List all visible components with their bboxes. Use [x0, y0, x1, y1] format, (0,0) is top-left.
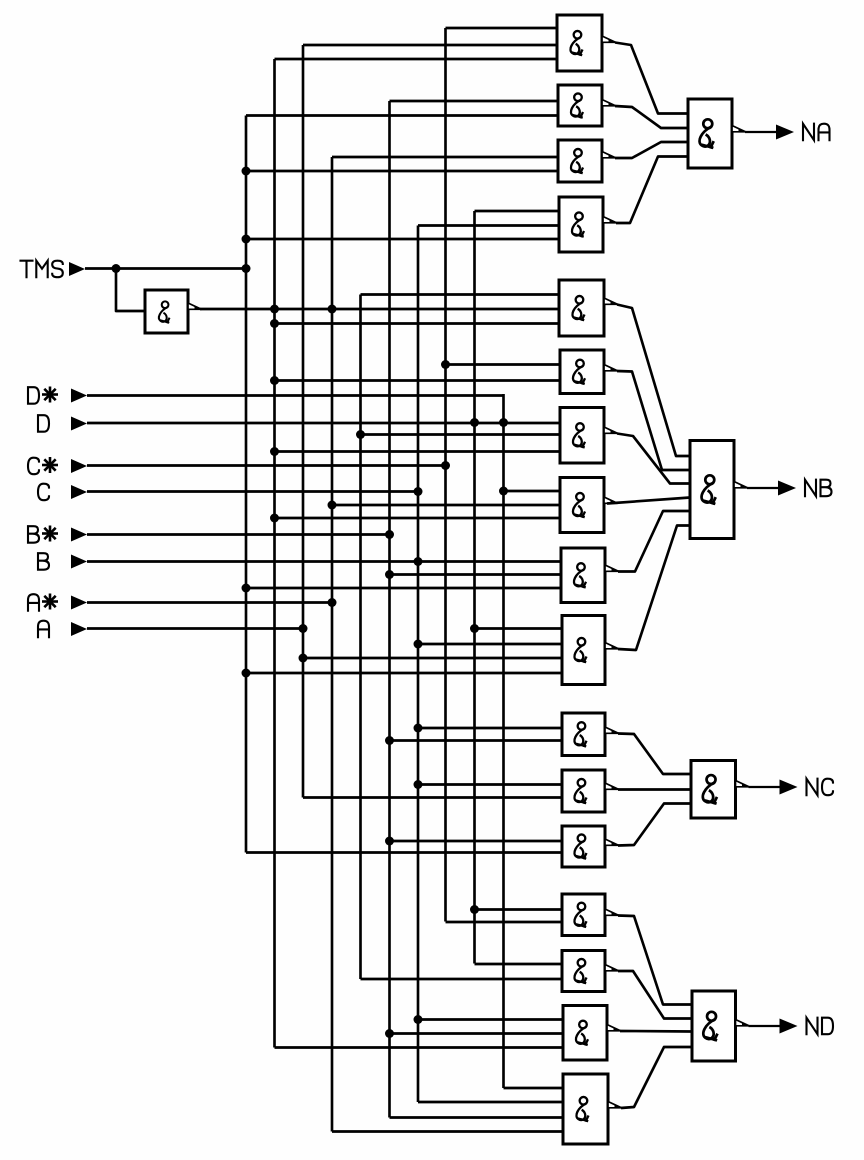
and-gate G17 symbol — [576, 1097, 588, 1122]
wire G6 input-1 row — [446, 363, 561, 366]
wire G13 output to NC — [618, 804, 691, 846]
wire G17 output to ND — [621, 1047, 692, 1108]
wire G10 input-3 row — [303, 657, 562, 660]
wire G11 input-2 row — [390, 739, 563, 742]
wire ND output — [749, 1025, 781, 1027]
input B arrow — [71, 555, 87, 569]
node G6 input-2 tap — [270, 376, 279, 385]
wire G16 input-2 row — [390, 1032, 563, 1035]
wire vertical bus A-star x=332 — [331, 157, 334, 1132]
wire NB output — [747, 487, 779, 489]
wire G7 output to NB — [617, 434, 690, 484]
wire G15 input-2 row — [361, 978, 563, 981]
input C* label — [28, 458, 39, 475]
wire G4 input-2 row — [418, 224, 558, 227]
wire TMS row — [85, 267, 246, 270]
and-gate G14 box — [562, 894, 605, 936]
and-gate G9 output arrow — [605, 565, 619, 571]
wire G4 input-3 row — [246, 238, 558, 241]
and-gate G4 box — [559, 197, 603, 252]
input B label — [38, 553, 49, 570]
output NB label — [805, 480, 816, 497]
and-gate G11 symbol — [574, 722, 586, 747]
and-gate G3 box — [558, 140, 602, 182]
and-gate G3 symbol — [571, 149, 583, 174]
wire G2 output to NA — [615, 106, 688, 128]
wire G11 output to NC — [618, 734, 691, 775]
and-gate G7 box — [560, 408, 604, 464]
wire G8 input-3 row — [275, 517, 561, 520]
and-gate G5 box — [559, 280, 604, 336]
output NA arrowhead — [776, 125, 794, 140]
and-gate G16 symbol — [576, 1021, 588, 1046]
wire vertical bus TMS-bar x=274 — [273, 59, 276, 1048]
wire B* row — [87, 533, 390, 536]
and-gate G16 output arrow — [607, 1025, 621, 1031]
and-gate G9 symbol — [574, 563, 586, 588]
and-gate G6 symbol — [573, 360, 585, 385]
node G7 input-2 tap — [356, 430, 365, 439]
wire G8 input-1 row — [504, 490, 561, 493]
wire G4 input-1 row — [475, 210, 559, 213]
and-gate G11 box — [562, 713, 605, 756]
node G14 input-1 tap D — [470, 905, 479, 914]
wire G13 input-1 row — [390, 840, 563, 843]
wire G10 input-2 row — [418, 643, 562, 646]
wire G11 input-1 row — [418, 727, 562, 730]
and-gate G12 symbol — [574, 779, 586, 804]
node TMS junction at bus — [242, 264, 251, 273]
node G11 input-2 tap B* — [385, 736, 394, 745]
wire G17 input-4 row — [332, 1130, 562, 1133]
node C row junction — [414, 487, 423, 496]
node TMS junction at x=116 — [112, 264, 121, 273]
wire G8 input-2 row — [332, 504, 560, 507]
nand-gate NC symbol — [703, 775, 717, 804]
wire G16 output to ND — [620, 1030, 692, 1033]
input D* label — [28, 387, 39, 404]
and-gate G10 box — [562, 616, 605, 685]
and-gate G6 output arrow — [604, 365, 618, 371]
node G11 input-1 tap B — [414, 724, 423, 733]
and-gate G17 box — [563, 1074, 608, 1144]
input B* label — [28, 526, 39, 543]
node G10 input-3 tap A — [299, 654, 308, 663]
and-gate G1 symbol — [570, 31, 582, 56]
output NB arrowhead — [778, 481, 796, 496]
wire TMS-bar row (inverter output to G5 input-2) — [200, 308, 560, 311]
node G3 input-2 tap TMS — [242, 167, 251, 176]
output NA label — [803, 124, 814, 141]
wire G1 output to NA — [615, 43, 688, 114]
and-gate G2 output arrow — [602, 100, 616, 106]
wire NC output — [749, 786, 781, 788]
input A* arrow — [71, 596, 87, 610]
and-gate G12 box — [562, 770, 605, 812]
inverter gate U1 output arrow — [188, 303, 202, 309]
wire NA output — [745, 131, 777, 133]
and-gate G14 symbol — [574, 903, 586, 928]
and-gate G7 output arrow — [604, 427, 618, 433]
and-gate G6 box — [560, 350, 604, 394]
wire G6 output to NB — [617, 371, 690, 470]
wire G3 input-1 row — [332, 156, 558, 159]
input D arrow — [71, 417, 87, 431]
wire G10 input-1 row — [475, 627, 563, 630]
wire G12 input-2 row — [303, 796, 562, 799]
wire G17 input-1 row — [504, 1087, 563, 1090]
node TMS-bar junction at x=274 — [270, 305, 279, 314]
inverter gate U1 symbol — [159, 301, 170, 323]
wire G5 input-1 row — [361, 293, 561, 296]
nand-gate NA symbol — [700, 119, 714, 148]
wire G16 input-3 row — [275, 1046, 563, 1049]
node G8 input-1 tap D* — [499, 487, 508, 496]
input C label — [38, 484, 49, 501]
nand-gate NB box — [690, 441, 734, 539]
and-gate G7 symbol — [573, 423, 585, 448]
node C* row junction — [441, 461, 450, 470]
and-gate G2 box — [558, 85, 602, 126]
wire vertical bus D-star x=503 — [502, 394, 505, 1088]
and-gate G1 box — [557, 15, 602, 71]
input TMS label — [21, 261, 33, 278]
wire vertical bus B x=418 — [417, 226, 420, 1103]
and-gate G13 box — [562, 826, 605, 867]
wire vertical bus C-star x=445 — [444, 28, 447, 922]
and-gate G17 output arrow — [608, 1102, 622, 1108]
wire G1 input-1 row — [446, 27, 559, 30]
wire G5 input-3 row — [275, 322, 561, 325]
and-gate G1 output arrow — [602, 36, 616, 42]
wire C row — [87, 490, 418, 493]
wire G5 output to NB — [617, 305, 690, 457]
nand-gate NB symbol — [702, 475, 716, 504]
output NC arrowhead — [780, 780, 798, 795]
node G16 input-2 tap B* — [385, 1029, 394, 1038]
wire G9 output to NB — [618, 511, 690, 572]
node B row junction — [414, 557, 423, 566]
node D row junction — [470, 418, 479, 427]
and-gate G13 output arrow — [605, 839, 619, 845]
and-gate G15 box — [562, 951, 605, 992]
node G16 input-1 tap B — [414, 1015, 423, 1024]
wire G10 output to NB — [618, 526, 690, 651]
node D row junction at D* bus — [499, 418, 508, 427]
and-gate G11 output arrow — [605, 727, 619, 733]
and-gate G9 box — [561, 548, 605, 603]
wire G17 input-2 row — [418, 1101, 562, 1104]
wire G2 input-1 row — [390, 100, 559, 103]
node G6 input-1 tap C* — [441, 360, 450, 369]
and-gate G14 output arrow — [605, 909, 619, 915]
and-gate G4 symbol — [572, 212, 584, 237]
node G7 input-3 tap TMS-bar — [270, 447, 279, 456]
input A arrow — [71, 622, 87, 636]
nand-gate ND symbol — [703, 1012, 717, 1041]
wire G12 input-1 row — [418, 783, 562, 786]
wire G16 input-1 row — [418, 1018, 562, 1021]
wire TMS branch to inverter — [116, 269, 145, 312]
wire B row — [87, 560, 560, 563]
wire G7 input-3 row — [275, 450, 561, 453]
and-gate G5 symbol — [572, 296, 584, 321]
node G10 input-2 tap B — [414, 640, 423, 649]
nand-gate NA output arrow — [732, 126, 746, 132]
output NC label — [807, 779, 818, 796]
and-gate G8 box — [560, 478, 604, 533]
node G9 input-3 tap TMS — [242, 584, 251, 593]
input TMS arrow — [69, 262, 85, 276]
wire G3 output to NA — [615, 142, 688, 158]
wire G6 input-2 row — [275, 379, 561, 382]
node A row junction — [299, 624, 308, 633]
wire G2 input-2 row — [246, 114, 558, 117]
wire G4 output to NA — [616, 157, 688, 224]
and-gate G15 symbol — [574, 959, 586, 984]
node G13 input-1 tap B* — [385, 837, 394, 846]
wire G12 output to NC — [618, 788, 691, 791]
input D* arrow — [71, 389, 87, 403]
output ND arrowhead — [780, 1019, 798, 1034]
and-gate G10 symbol — [574, 638, 586, 663]
and-gate G2 symbol — [571, 93, 583, 118]
wire G3 input-2 row — [246, 170, 558, 173]
and-gate G10 output arrow — [605, 643, 619, 649]
node B* row junction — [385, 530, 394, 539]
wire vertical bus x=360 — [359, 295, 362, 980]
node G8 input-3 tap TMS-bar — [270, 514, 279, 523]
wire G9 input-3 row — [246, 587, 560, 590]
input A label — [38, 621, 49, 638]
nand-gate NA box — [688, 99, 732, 168]
wire G13 input-2 row — [246, 851, 562, 854]
wire G14 output to ND — [618, 916, 692, 1005]
wire G8 output to NB — [607, 498, 690, 504]
inverter gate U1 box — [145, 290, 188, 333]
wire vertical bus A x=303 — [302, 45, 305, 798]
nand-gate NC box — [691, 761, 736, 819]
wire G17 input-3 row — [390, 1116, 563, 1119]
and-gate G8 output arrow — [604, 497, 618, 503]
node G8 input-2 tap A* — [328, 501, 337, 510]
and-gate G15 output arrow — [605, 965, 619, 971]
wire C* row — [87, 464, 446, 467]
wire G14 input-1 row — [475, 908, 563, 911]
node G5 input-3 tap — [270, 319, 279, 328]
node G4 input-3 tap TMS — [242, 235, 251, 244]
wire G10 input-4 row — [246, 672, 562, 675]
wire G14 input-2 row — [446, 921, 563, 924]
nand-gate ND output arrow — [736, 1020, 750, 1026]
and-gate G5 output arrow — [604, 298, 618, 304]
input B* arrow — [71, 528, 87, 542]
wire vertical bus D x=474 — [473, 211, 476, 964]
wire vertical bus TMS x=246 — [245, 116, 248, 853]
input C arrow — [71, 485, 87, 499]
nand-gate NC output arrow — [736, 781, 750, 787]
node TMS-bar junction at x=332 — [328, 305, 337, 314]
wire D* row — [87, 394, 504, 397]
nand-gate ND box — [692, 991, 736, 1061]
nand-gate NB output arrow — [734, 482, 748, 488]
output ND label — [807, 1018, 818, 1035]
input A* label — [28, 594, 39, 611]
and-gate G16 box — [563, 1006, 607, 1061]
and-gate G3 output arrow — [602, 152, 616, 158]
and-gate G13 symbol — [574, 834, 586, 859]
and-gate G12 output arrow — [605, 783, 619, 789]
wire G15 output to ND — [618, 971, 692, 1019]
wire G9 input-2 row — [390, 573, 561, 576]
wire vertical bus B-star x=389 — [388, 101, 391, 1118]
and-gate G8 symbol — [573, 493, 585, 518]
wire A row — [87, 627, 303, 630]
wire G1 input-3 row — [275, 58, 559, 61]
node G9 input-2 tap B* — [385, 570, 394, 579]
input D label — [38, 415, 49, 432]
wire A* row — [87, 601, 332, 604]
wire G7 input-2 row — [361, 433, 561, 436]
and-gate G4 output arrow — [603, 217, 617, 223]
node G12 input-1 tap B — [414, 780, 423, 789]
wire G1 input-2 row — [303, 44, 558, 47]
node G10 input-4 tap TMS — [242, 669, 251, 678]
wire G15 input-1 row — [475, 963, 563, 966]
node A* row junction — [328, 598, 337, 607]
node G10 input-1 tap D — [470, 624, 479, 633]
input C* arrow — [71, 459, 87, 473]
wire D row — [87, 422, 560, 425]
